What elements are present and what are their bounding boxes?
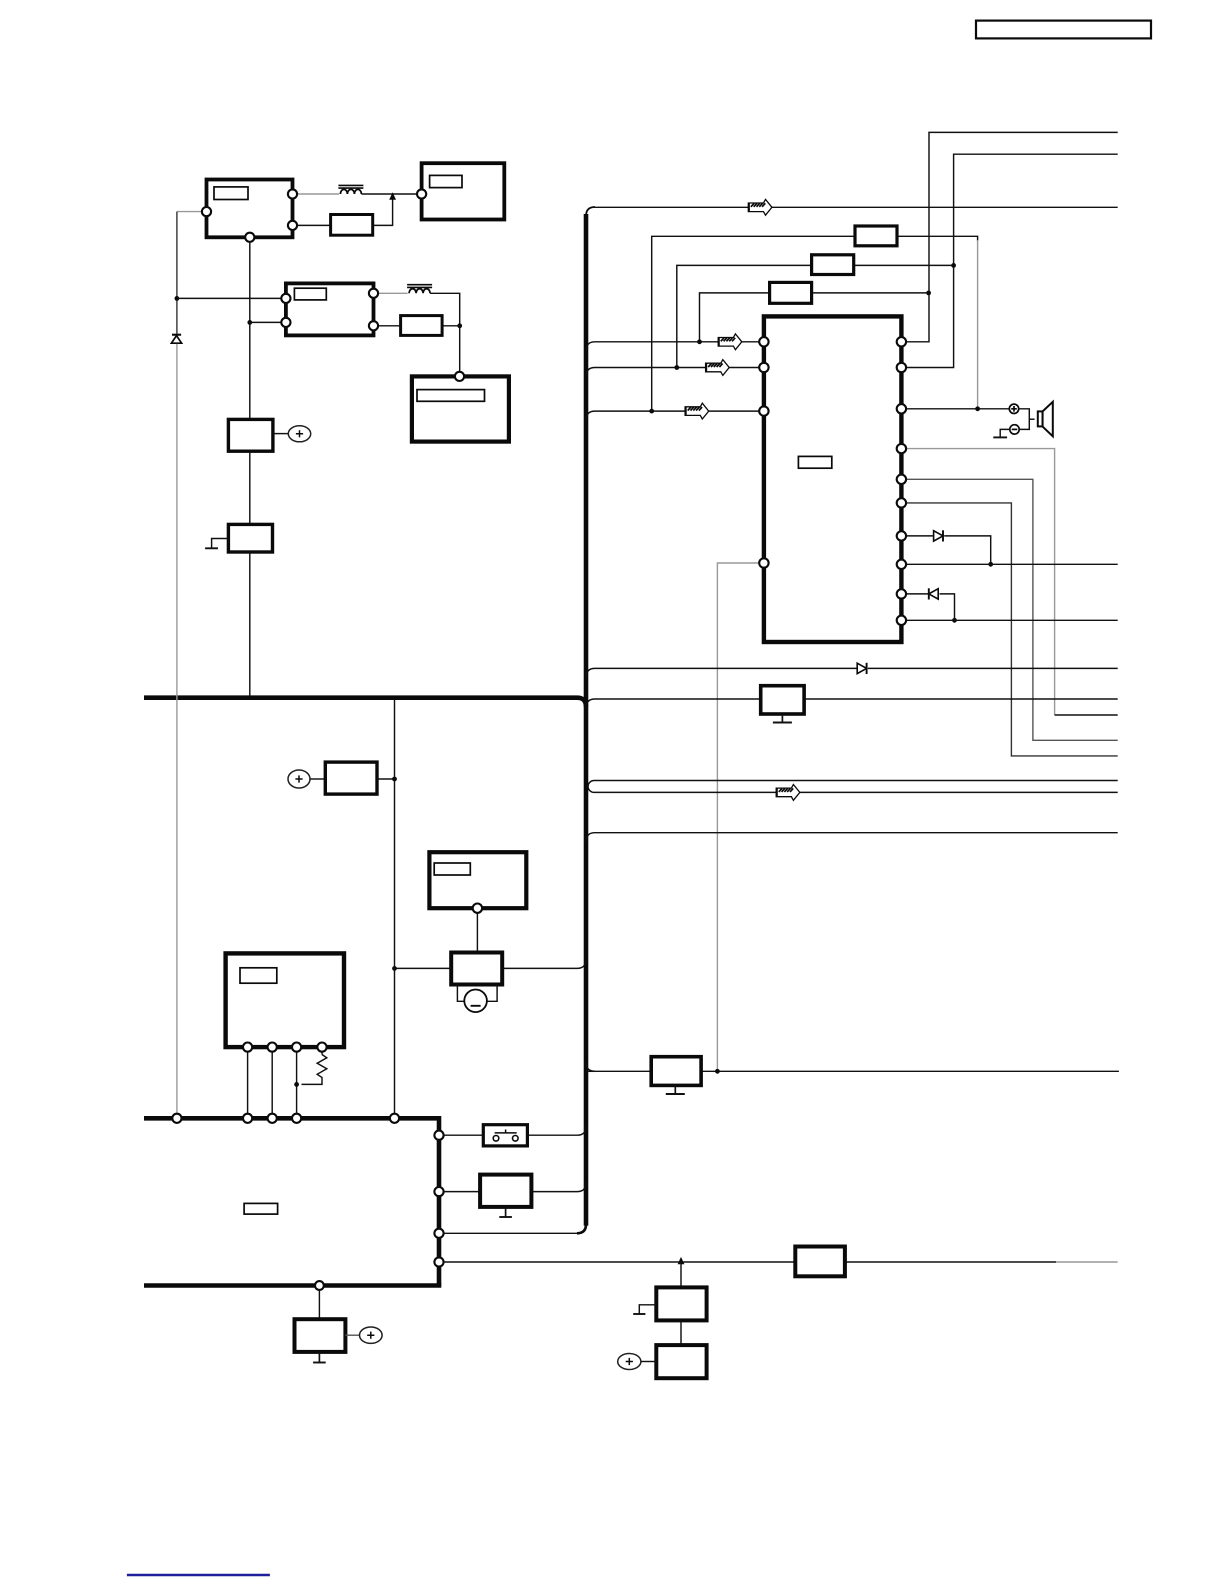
node circle box row — [434, 1187, 443, 1196]
pin circle U201 right 2 — [369, 321, 378, 330]
wire mic row right to bus — [502, 959, 586, 968]
pin circle U501 1 — [243, 1043, 252, 1052]
pin circle IC left — [759, 337, 768, 346]
wire PS7 to +supply oval — [345, 1334, 359, 1336]
wire bus row through box FB2 — [586, 1062, 1119, 1071]
junction pin3/resistor — [294, 1082, 299, 1087]
module U202 box — [412, 376, 509, 441]
wire inductor corner down to module U202 — [430, 293, 460, 376]
power box PS1 — [228, 419, 273, 451]
pin circle U101 right bottom — [288, 221, 297, 230]
wire bus to IC pin L1 with arrow — [586, 342, 764, 351]
wire IC pin R5 — [901, 479, 1117, 740]
junction R302/net B — [951, 263, 956, 268]
power box PS2 — [228, 524, 272, 552]
switch SW1 box — [483, 1125, 527, 1146]
wire to box PS4 — [444, 1191, 481, 1193]
pin circle IC right — [897, 616, 906, 625]
speaker SP1 symbol — [1038, 411, 1043, 426]
junction R303/net A — [926, 291, 931, 296]
bus: thick horizontal net upper — [144, 698, 586, 707]
junction to hybrid module pin 2 — [247, 320, 252, 325]
speaker wiring — [1019, 409, 1030, 430]
arrowhead junction on wire — [389, 192, 396, 199]
+supply oval 4 — [360, 1327, 383, 1343]
node circle on bottom-most bus — [315, 1281, 324, 1290]
pin circle IC right — [897, 589, 906, 598]
wire: left vertical net upper segment — [176, 212, 178, 334]
pin circle IC right — [897, 363, 906, 372]
wire to switch SW1 — [444, 1134, 484, 1136]
inductor L101 with core — [338, 185, 363, 194]
diode D1 (vertical, cathode up) — [171, 335, 181, 344]
wire PS5 to PS6 — [680, 1320, 682, 1345]
IC U301 box — [764, 316, 902, 642]
wire: left vertical net lower segment (gray) — [176, 344, 178, 1118]
wire IC pin L4 to long vertical (gray) — [717, 563, 764, 1071]
node circle on bottom bus — [292, 1114, 301, 1123]
wire bus to IC pin L3 with arrow — [586, 411, 764, 420]
power box PS3 — [325, 762, 377, 794]
wire (gray) U201 to inductor — [374, 292, 408, 294]
ground at FB2 — [674, 1085, 676, 1094]
wire inductor to module 2 — [361, 193, 421, 195]
wire junction down to box PS5 — [680, 1262, 682, 1287]
bus: main thick vertical net — [586, 207, 595, 216]
pin circle IC right — [897, 498, 906, 507]
box FB2 — [651, 1057, 701, 1086]
title box (empty) top-right — [976, 21, 1151, 39]
speaker - terminal circle — [1010, 425, 1019, 434]
wire U501 pin1 down — [247, 1052, 249, 1114]
junction D301 net — [988, 562, 993, 567]
+supply oval 3 — [618, 1354, 641, 1370]
vertical net from thick bus down to bottom bus — [394, 700, 396, 1114]
label U501 (blank) — [240, 968, 277, 983]
ground at PS5 (left) — [639, 1305, 656, 1314]
module U201 box — [286, 283, 374, 335]
wire IC pin R9 through diode — [901, 593, 928, 595]
wire IC pin R10 — [901, 619, 1117, 621]
node circle bus-bottom row — [434, 1229, 443, 1238]
junction resistor to vertical — [457, 323, 462, 328]
node circle on bottom bus — [390, 1114, 399, 1123]
diode D301 — [934, 530, 943, 541]
pin circle IC right — [897, 475, 906, 484]
junction PS3 — [392, 777, 397, 782]
speaker + terminal circle — [1009, 404, 1018, 413]
node circle on bottom bus — [243, 1114, 252, 1123]
mic bracket — [457, 985, 464, 1002]
wire IC pin R3 to speaker junction — [901, 408, 1009, 410]
pin circle U101 bottom — [245, 233, 254, 242]
wire top net with flow arrow (from bus to right) — [592, 206, 1118, 208]
junction L1 — [697, 339, 702, 344]
pin circle U501 3 — [292, 1043, 301, 1052]
resistor R302 wires — [677, 265, 812, 367]
junction mic row / vertical — [392, 966, 397, 971]
module U102 box — [422, 163, 505, 219]
wire net B: 2nd row to IC right pin 2 — [901, 154, 1117, 367]
diode D303 — [857, 663, 866, 674]
pin circle U501 4 — [317, 1043, 326, 1052]
pin circle U501 2 — [268, 1043, 277, 1052]
wire U401 to mic — [476, 913, 478, 953]
pin circle IC left — [759, 558, 768, 567]
power box PS7 — [295, 1319, 346, 1352]
label U202 (blank) — [417, 390, 485, 402]
mic circle — [464, 990, 487, 1013]
pin circle IC right — [897, 560, 906, 569]
power box PS4 — [480, 1175, 531, 1207]
pin circle U201 left 1 — [281, 294, 290, 303]
pin circle IC right — [897, 444, 906, 453]
flow arrow — [748, 199, 772, 215]
power box PS6 — [656, 1345, 706, 1378]
ground at PS4 — [505, 1207, 507, 1217]
wire oval to box PS3 — [310, 778, 325, 780]
wire IC pin R4 — [901, 449, 1054, 715]
ground at speaker — [993, 436, 1007, 438]
arrowhead junction bottom row — [678, 1257, 685, 1264]
module U101 box — [207, 180, 293, 238]
pin circle IC right — [897, 404, 906, 413]
wire net A: top row to IC right pin 1 — [901, 132, 1117, 341]
resistor R201 — [401, 316, 443, 336]
node circle long row — [434, 1257, 443, 1266]
node circle on bottom bus — [268, 1114, 277, 1123]
bus: thick horizontal bottom net — [144, 1118, 439, 1285]
wire switch to bus — [527, 1126, 586, 1135]
junction: left net to row wire — [175, 296, 180, 301]
pin circle U102 left — [417, 189, 426, 198]
wire IC pin R6 — [901, 503, 1117, 756]
pin circle IC right — [897, 531, 906, 540]
wire to bus bottom — [444, 1232, 577, 1234]
label U401 (blank) — [434, 863, 470, 875]
wire from module 1 to left vertical net — [177, 211, 207, 213]
zigzag resistor R501 — [302, 1055, 327, 1085]
pin circle IC left — [759, 406, 768, 415]
pin circle IC left — [759, 363, 768, 372]
ground at FB1 — [781, 714, 783, 723]
pin circle IC right — [897, 337, 906, 346]
wire node down to box PS7 — [318, 1290, 320, 1319]
junction speaker net — [975, 406, 980, 411]
junction L3 — [649, 409, 654, 414]
ground bar — [205, 547, 218, 549]
wire bus through diode D303 to right — [586, 668, 857, 677]
resistor R302 — [812, 255, 854, 275]
label U201 (blank) — [294, 288, 326, 300]
wire U501 pin4 through zigzag resistor — [321, 1052, 323, 1055]
wire pair with U-bend and flow arrow — [588, 781, 1118, 793]
resistor R301 wires — [652, 236, 855, 411]
resistor R303 — [770, 282, 812, 303]
wire U101 bottom pin down to power box — [249, 242, 251, 420]
junction D302 net — [952, 618, 957, 623]
module U501 box — [226, 953, 344, 1047]
wire oval to PS6 — [641, 1361, 656, 1363]
inductor L201 with core — [407, 285, 432, 294]
pin circle U201 left 2 — [281, 318, 290, 327]
block label (blank) — [244, 1203, 278, 1214]
wire bus to IC pin L2 with arrow — [586, 368, 764, 377]
node circle switch row — [434, 1131, 443, 1140]
ground at PS7 — [318, 1352, 320, 1363]
wire PS1 to +supply oval — [273, 433, 288, 435]
pin circle U101 right top — [288, 189, 297, 198]
bus: thick bottom-most horizontal net — [144, 1283, 441, 1288]
junction L2 — [674, 365, 679, 370]
wire bus through box FB1 to right — [586, 699, 1118, 708]
wire bus to right (row 3) — [586, 833, 1118, 842]
label U301 (blank) — [798, 456, 831, 468]
resistor R601 on row — [795, 1247, 845, 1277]
resistor R101 — [331, 215, 373, 236]
node circle on bottom bus — [172, 1114, 181, 1123]
wire PS1 to PS2 — [249, 451, 251, 524]
pin circle U101 left — [202, 207, 211, 216]
resistor R201 wires — [374, 325, 401, 327]
resistor R101 wires — [293, 224, 331, 226]
label U101 (blank) — [214, 187, 248, 200]
box FB1 — [761, 686, 804, 714]
power box PS5 — [656, 1287, 706, 1320]
wire PS3 to vertical — [377, 778, 395, 780]
diode D302 (reversed) — [929, 588, 938, 599]
+supply oval — [288, 426, 310, 442]
wire U501 pin3 down — [296, 1052, 298, 1114]
footer rule (blue) — [127, 1574, 270, 1576]
+supply oval 2 — [288, 770, 310, 788]
box U401 — [429, 852, 526, 908]
wire mic row left — [395, 967, 452, 969]
switch contacts — [493, 1136, 499, 1142]
wire (gray) module to inductor — [293, 193, 340, 195]
wire IC pin R7 through diode — [901, 535, 933, 537]
label U102 (blank) — [430, 175, 462, 187]
wire PS4 to bus — [531, 1183, 586, 1192]
ground at PS2 — [212, 539, 229, 549]
wire IC pin R8 — [901, 563, 1117, 565]
junction FB2 row / long vertical — [715, 1069, 720, 1074]
wire PS2 down to thick net — [249, 552, 251, 696]
wire row to hybrid module left pin — [177, 297, 286, 299]
mic box MIC1 — [451, 953, 502, 985]
pin circle U401 bottom — [473, 904, 482, 913]
wire long bottom row — [444, 1261, 1056, 1263]
pin circle U202 top — [455, 372, 464, 381]
wire U501 pin2 down — [271, 1052, 273, 1114]
resistor R303 wires — [700, 293, 770, 342]
pin circle U201 right 1 — [369, 289, 378, 298]
resistor R301 — [855, 226, 897, 246]
